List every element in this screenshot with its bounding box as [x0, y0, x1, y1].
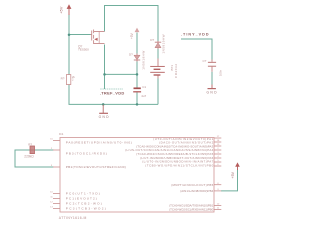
- svg-text:4u7: 4u7: [141, 94, 146, 98]
- svg-text:R?: R?: [61, 76, 65, 80]
- svg-text:.TREF_VDD: .TREF_VDD: [100, 90, 125, 95]
- svg-text:(AIN1/L/AIN8/XDIR)PB4: (AIN1/L/AIN8/XDIR)PB4: [180, 189, 213, 193]
- svg-text:C?: C?: [203, 59, 207, 63]
- svg-text:ATTINY1616-M: ATTINY1616-M: [59, 216, 87, 220]
- svg-text:D?: D?: [129, 53, 133, 57]
- svg-text:1N5819HW: 1N5819HW: [141, 51, 145, 70]
- svg-text:PB2(TOSC2/EVOUT1/STREF/CAN0): PB2(TOSC2/EVOUT1/STREF/CAN0): [66, 165, 126, 169]
- svg-text:PC0(UT1-TXD): PC0(UT1-TXD): [66, 192, 100, 196]
- svg-text:D?: D?: [150, 38, 154, 42]
- svg-text:PC1(EVOUT2): PC1(EVOUT2): [66, 197, 97, 201]
- svg-text:PC3(TCB3-WO2): PC3(TCB3-WO2): [66, 207, 106, 211]
- svg-text:IC1: IC1: [59, 132, 64, 136]
- svg-text:100n: 100n: [219, 69, 223, 76]
- svg-text:PC2(TCB2-WO): PC2(TCB2-WO): [66, 202, 102, 206]
- svg-text:R?: R?: [28, 142, 32, 146]
- svg-text:.TINY_VDD: .TINY_VDD: [181, 32, 209, 36]
- svg-text:(TCB0-WO/UPD/AIN11/STCLK/IN7)P: (TCB0-WO/UPD/AIN11/STCLK/IN7)PB0: [145, 163, 213, 167]
- svg-text:+5V: +5V: [231, 171, 235, 178]
- svg-text:GND: GND: [207, 91, 218, 95]
- svg-text:+5V: +5V: [58, 6, 63, 14]
- svg-text:+5V: +5V: [130, 32, 134, 39]
- svg-text:1N5819HW: 1N5819HW: [162, 34, 166, 53]
- svg-text:TES500: TES500: [78, 48, 89, 52]
- svg-text:PA0(RESET/UPDI/AIN0/UT0-IN0): PA0(RESET/UPDI/AIN0/UT0-IN0): [66, 141, 132, 145]
- svg-text:PB3(TOSC1/RXD0): PB3(TOSC1/RXD0): [66, 152, 107, 156]
- svg-text:(TCA0-WO2/SCL/RXD/AIN11)PB0: (TCA0-WO2/SCL/RXD/AIN11)PB0: [169, 208, 213, 212]
- svg-text:CR2032: CR2032: [174, 64, 178, 78]
- svg-text:GND: GND: [99, 115, 110, 119]
- svg-text:(MNPT/AIN9/CLKOUT)PB5: (MNPT/AIN9/CLKOUT)PB5: [171, 183, 213, 187]
- svg-text:C1: C1: [142, 85, 146, 89]
- svg-text:220kΩ: 220kΩ: [24, 155, 34, 159]
